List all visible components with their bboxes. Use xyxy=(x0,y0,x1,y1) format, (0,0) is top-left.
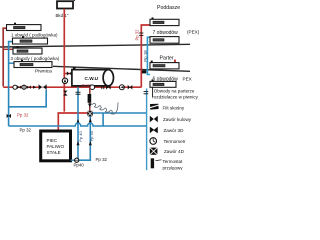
floor divider line 2 xyxy=(53,66,190,71)
manifold bar 1 xyxy=(7,23,42,31)
svg-text:Pp 32: Pp 32 xyxy=(134,29,139,41)
pump right of tank xyxy=(119,85,124,90)
manifold bar 2 xyxy=(13,36,48,44)
svg-text:Zawór 4D: Zawór 4D xyxy=(164,149,185,154)
flow arrow up left xyxy=(77,141,80,145)
pipe: boiler to pump stub xyxy=(71,159,75,161)
union on right vertical xyxy=(144,92,149,94)
svg-text:Pp 32: Pp 32 xyxy=(20,127,32,132)
pipe: blue left riser xyxy=(9,42,13,126)
svg-text:Zawór kulowy: Zawór kulowy xyxy=(163,117,192,122)
pipe: left red riser xyxy=(3,28,6,86)
CWU tank xyxy=(72,67,114,86)
svg-text:Pp 32: Pp 32 xyxy=(96,157,108,162)
pipe: right blue connector xyxy=(147,37,150,74)
flow arrow up right xyxy=(89,141,92,145)
pipe: blue lower horizontal with hops xyxy=(9,123,147,126)
svg-text:Zawór 3D: Zawór 3D xyxy=(164,128,185,133)
svg-text:Pp 50: Pp 50 xyxy=(89,130,94,141)
pipe: right red riser xyxy=(141,25,150,87)
dark red sensor feed xyxy=(88,87,92,111)
svg-text:Pp 18: Pp 18 xyxy=(143,50,148,62)
label: PIEC PALIWO STALE xyxy=(47,138,65,155)
flow arrow upper left xyxy=(77,119,80,123)
svg-text:Pp 32: Pp 32 xyxy=(17,112,29,117)
valve on tank bottom pipe xyxy=(106,85,111,90)
pipe: red stub to CWU tank xyxy=(64,73,72,75)
legend icon: ball valve xyxy=(150,116,158,123)
svg-text:Pp40: Pp40 xyxy=(74,162,85,167)
pipe: blue horizontal mid right xyxy=(93,112,147,114)
pipe: blue right vertical drop xyxy=(146,89,148,171)
black fitting at divider crossing xyxy=(142,70,146,73)
cold water squiggle xyxy=(91,102,119,114)
svg-text:C.W.U: C.W.U xyxy=(85,76,99,81)
legend label: Termostat przylgowy xyxy=(163,159,184,170)
note: obwody na parterze xyxy=(152,88,198,99)
valve at CWU inlet xyxy=(67,71,72,75)
svg-text:Pp 40: Pp 40 xyxy=(78,130,83,141)
flow arrow on red pipe xyxy=(33,86,36,89)
pipe: blue boiler vertical right xyxy=(79,116,90,160)
pipe: blue boiler vertical left xyxy=(77,87,79,160)
svg-text:Obwody na parterze: Obwody na parterze xyxy=(154,88,195,93)
legend icon: 3-way valve xyxy=(150,127,158,134)
svg-text:PIEC: PIEC xyxy=(47,138,58,143)
svg-text:Filt skośny: Filt skośny xyxy=(163,105,185,110)
manifold bar 3 xyxy=(13,46,42,54)
svg-text:(PEX): (PEX) xyxy=(187,30,200,35)
svg-text:Termostat: Termostat xyxy=(163,159,184,164)
valve on blue riser xyxy=(7,114,11,118)
legend icon: thermostat xyxy=(151,158,154,168)
boiler box xyxy=(41,131,71,161)
valve right of tank xyxy=(128,85,133,90)
svg-text:przylgowy: przylgowy xyxy=(163,165,184,170)
manifold bar A xyxy=(150,17,179,25)
manifold bar B xyxy=(150,37,179,44)
svg-text:PALIWO: PALIWO xyxy=(47,144,65,149)
pump group valve 2 xyxy=(27,85,31,89)
svg-text:3 obwody ( podłogówka): 3 obwody ( podłogówka) xyxy=(11,56,60,61)
svg-text:Bkd 1'': Bkd 1'' xyxy=(56,13,69,18)
svg-text:STAŁE: STAŁE xyxy=(47,150,61,155)
red tick above manifold C xyxy=(174,60,176,63)
svg-text:7 obwodów: 7 obwodów xyxy=(153,30,179,36)
svg-text:Termometr: Termometr xyxy=(164,139,186,144)
union on boiler vertical left xyxy=(76,92,81,94)
pipe: middle red riser xyxy=(63,9,65,112)
flow arrow upper right xyxy=(89,118,92,122)
valve on middle riser below T xyxy=(63,91,67,96)
pipe: bottom red horizontal main xyxy=(3,86,141,88)
legend icon: thermometer xyxy=(150,138,157,145)
3-way mixing valve xyxy=(39,84,47,90)
note bracket line xyxy=(152,87,154,98)
svg-text:Parter: Parter xyxy=(160,55,174,61)
pipe: red stub to manifold 3 xyxy=(3,48,13,50)
pump on middle riser xyxy=(62,78,67,83)
pump group valve 1 xyxy=(17,85,21,89)
expansion vessel box top xyxy=(57,0,75,8)
thermostat pointer line xyxy=(156,159,162,162)
pump on tank bottom pipe left xyxy=(90,85,95,90)
pipe: red horizontal to 4-way valve xyxy=(58,113,87,131)
pump group circle 1 xyxy=(13,85,17,89)
black rect sensor below pipe xyxy=(88,94,92,103)
pipe: blue stub to manifold 4 xyxy=(9,62,14,64)
svg-text:PEX: PEX xyxy=(183,77,192,82)
manifold bar D xyxy=(150,80,176,88)
svg-text:rozdzielacze w piwnicy: rozdzielacze w piwnicy xyxy=(152,95,198,100)
legend icon: filter xyxy=(149,104,159,110)
manifold bar C xyxy=(150,61,179,69)
svg-text:Piwnica: Piwnica xyxy=(35,68,52,74)
union on right red riser xyxy=(139,33,143,35)
pump Pp40 xyxy=(75,158,79,162)
svg-text:1 obwód ( podłogówka): 1 obwód ( podłogówka) xyxy=(11,32,58,37)
pipe: blue mixing loop xyxy=(9,90,47,107)
floor divider line 1 xyxy=(0,44,190,47)
manifold bar 4 xyxy=(14,60,52,68)
pump group circle 2 xyxy=(22,85,26,89)
union on tank bottom pipe xyxy=(102,85,104,89)
svg-text:Poddasze: Poddasze xyxy=(157,5,180,11)
legend icon: 4-way valve xyxy=(150,148,158,155)
4-way valve on horizontal pipe xyxy=(87,111,93,117)
pipe: blue connector vertical xyxy=(102,113,104,126)
